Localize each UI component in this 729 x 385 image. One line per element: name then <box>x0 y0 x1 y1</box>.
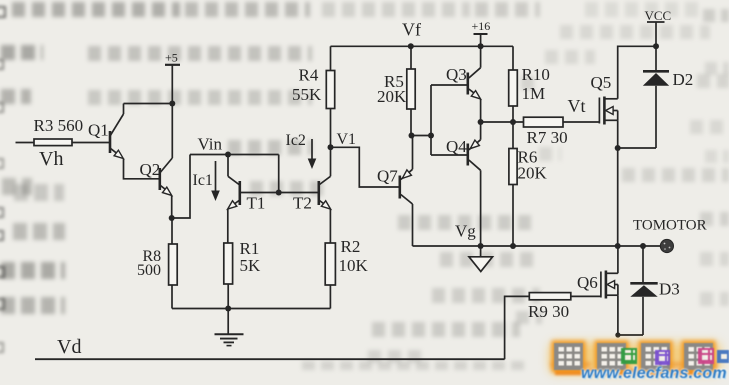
wire Q5 source to D2 <box>618 147 656 149</box>
svg-text:R9 30: R9 30 <box>528 302 569 321</box>
svg-text:R7 30: R7 30 <box>527 128 568 147</box>
junction R5 Q7 node <box>409 133 415 139</box>
value label R5 20K <box>377 72 407 106</box>
wire Vin line <box>190 154 279 156</box>
svg-text:T1: T1 <box>247 193 266 212</box>
junction Q5 Q6 rail Vg <box>615 243 621 249</box>
resistor R8 <box>169 244 178 285</box>
wire Q4 collector down <box>480 170 482 246</box>
value label R2 10K <box>339 237 369 275</box>
power +5 <box>165 50 180 158</box>
svg-text:Ic1: Ic1 <box>193 172 213 189</box>
svg-text:+5: +5 <box>165 50 178 64</box>
junction base drive corner <box>428 133 434 139</box>
junction T1 collector on Vin line <box>225 152 231 158</box>
wire R8 top <box>171 218 173 244</box>
wire Q7 collector down <box>412 204 414 246</box>
resistor R2 <box>325 243 335 285</box>
node Vd label <box>57 336 81 358</box>
svg-text:R4: R4 <box>299 65 319 84</box>
junction Q3 Q4 emitters <box>478 119 484 125</box>
mosfet Q5 <box>591 73 618 125</box>
wire T2 emitter to R2 <box>329 209 331 243</box>
svg-text:Ic2: Ic2 <box>286 132 306 149</box>
wire R4 top <box>330 46 332 70</box>
value label R9 30 <box>528 302 569 321</box>
svg-text:Q2: Q2 <box>140 160 161 179</box>
wire V1 to Q7 base <box>331 147 399 187</box>
svg-text:Q1: Q1 <box>88 120 109 139</box>
node Vh label <box>39 148 63 170</box>
wire base drive to Q3 Q4 <box>412 85 468 155</box>
wire Q6 gate to R9 <box>571 295 601 297</box>
svg-text:Q4: Q4 <box>446 137 467 156</box>
wire Q1 emitter to Q2 base <box>124 159 159 179</box>
resistor R3 <box>34 139 72 146</box>
node TOMOTOR label <box>633 217 707 233</box>
svg-text:Vin: Vin <box>198 134 223 153</box>
wire R5 top <box>410 46 412 69</box>
wire Q5 drain up <box>618 46 656 99</box>
background bleed-through text rows <box>12 2 180 17</box>
wire R6 bottom <box>512 185 514 247</box>
wire R10 top <box>512 46 514 70</box>
wire T2 collector to V1 <box>330 147 332 176</box>
wire Q1 collector to +5 line <box>124 103 173 105</box>
junction Q5 source <box>615 145 621 151</box>
wire R10 bottom <box>512 106 514 122</box>
svg-text:Q5: Q5 <box>591 73 612 92</box>
resistor R6 <box>509 149 517 185</box>
svg-text:20K: 20K <box>377 87 407 106</box>
junction base link <box>276 190 282 196</box>
junction VCC node <box>653 43 659 49</box>
resistor R1 <box>224 243 233 284</box>
value label R1 5K <box>240 239 262 275</box>
wire Q4 emitter up <box>480 122 482 140</box>
svg-text:D3: D3 <box>659 279 680 298</box>
svg-text:+16: +16 <box>472 19 491 33</box>
transistor Q2 <box>140 158 173 195</box>
power VCC <box>645 8 672 46</box>
svg-text:Q7: Q7 <box>377 166 398 185</box>
resistor R9 <box>529 293 571 300</box>
wire R5 bottom <box>410 109 412 136</box>
wire Vt line left <box>481 121 524 123</box>
svg-text:20K: 20K <box>518 163 548 182</box>
wire Vh input <box>16 142 35 144</box>
wire R4 bottom <box>330 109 332 148</box>
value label R10 1M <box>522 65 550 103</box>
svg-text:500: 500 <box>137 262 161 279</box>
junction D3 top Vg <box>640 243 646 249</box>
svg-text:R10: R10 <box>522 65 550 84</box>
svg-text:55K: 55K <box>292 85 322 104</box>
resistor R5 <box>407 69 415 109</box>
svg-text:10K: 10K <box>339 256 369 275</box>
wire Vd line <box>35 358 505 360</box>
wire Q6 source down <box>615 295 643 337</box>
wire R6 top <box>512 122 514 149</box>
svg-text:Q3: Q3 <box>446 65 467 84</box>
wire T1 T2 base link <box>240 155 319 193</box>
wire Q7 emitter up <box>412 136 414 170</box>
ground main <box>215 309 244 346</box>
svg-text:Vh: Vh <box>39 148 63 170</box>
transistor T1 <box>228 155 266 213</box>
wire R1 bottom <box>227 284 229 309</box>
left edge dark partial glyphs <box>0 5 11 23</box>
terminal TOMOTOR <box>660 239 673 252</box>
svg-text:Vt: Vt <box>568 96 586 116</box>
junction V1 <box>328 144 334 150</box>
svg-text:D2: D2 <box>673 70 694 89</box>
node Vt label <box>568 96 586 116</box>
mosfet Q6 <box>577 271 618 299</box>
wire Vt line right <box>563 121 599 123</box>
junction R6 bottom Vg <box>510 243 516 249</box>
junction Vf <box>408 43 414 49</box>
watermark logo <box>545 338 729 385</box>
node V1 label <box>337 131 357 148</box>
current arrow Ic1 <box>193 161 220 201</box>
junction R10 bottom <box>510 119 516 125</box>
resistor R4 <box>326 71 334 109</box>
node Vg label <box>455 221 476 240</box>
junction Q4 collector Vg <box>478 243 484 249</box>
value label R7 30 <box>527 128 568 147</box>
current arrow Ic2 <box>286 132 317 169</box>
diode D3 <box>630 246 679 335</box>
value label R6 20K <box>518 147 548 182</box>
svg-text:5K: 5K <box>240 256 262 275</box>
wire Q6 drain up <box>617 246 619 273</box>
junction Q2 emitter R8 node <box>169 215 175 221</box>
svg-text:Vg: Vg <box>455 221 476 240</box>
svg-text:Q6: Q6 <box>577 273 598 292</box>
wire Q2 emitter down <box>171 195 173 218</box>
svg-text:T2: T2 <box>293 193 312 212</box>
svg-text:1M: 1M <box>522 84 546 103</box>
svg-text:V1: V1 <box>337 131 357 148</box>
wire top rail Vf <box>331 45 514 47</box>
ground Vg <box>469 246 493 272</box>
transistor Q4 <box>446 137 481 171</box>
svg-text:R2: R2 <box>341 237 361 256</box>
svg-text:TOMOTOR: TOMOTOR <box>633 217 707 233</box>
junction +16 on rail <box>478 43 484 49</box>
transistor Q7 <box>377 166 413 204</box>
svg-text:Vf: Vf <box>402 19 421 39</box>
svg-text:VCC: VCC <box>645 8 672 23</box>
wire Q5 source rail down <box>617 148 619 246</box>
wire T1 emitter to R1 <box>227 209 229 243</box>
wire bottom rail <box>172 308 330 310</box>
diode D2 <box>643 46 693 148</box>
wire Vg line <box>413 245 661 247</box>
resistor R7 <box>524 117 564 127</box>
wire R2 bottom <box>329 285 331 309</box>
value label R4 55K <box>292 65 322 104</box>
transistor Q1 <box>88 104 124 159</box>
svg-text:Vd: Vd <box>57 336 81 358</box>
transistor T2 <box>293 176 331 212</box>
wire R3 to Q1 base <box>72 142 109 144</box>
wire Q5 source down <box>617 120 619 148</box>
node Vf label <box>402 19 421 39</box>
wire Q3 collector up <box>480 46 482 67</box>
wire R9 to Vd <box>505 296 530 359</box>
wire Q3 emitter down <box>480 99 482 122</box>
resistor R10 <box>509 70 518 106</box>
power +16 <box>472 19 491 46</box>
junction R1 bottom <box>225 306 231 312</box>
transistor Q3 <box>446 65 481 99</box>
node Vin label <box>198 134 223 153</box>
value label R3 560 <box>34 116 84 135</box>
wire R8 bottom <box>171 285 173 309</box>
svg-text:R3 560: R3 560 <box>34 116 84 135</box>
junction on +5 line <box>169 101 175 107</box>
value label R8 500 <box>137 248 161 279</box>
wire Q2 emitter node to Vin line <box>172 155 190 219</box>
